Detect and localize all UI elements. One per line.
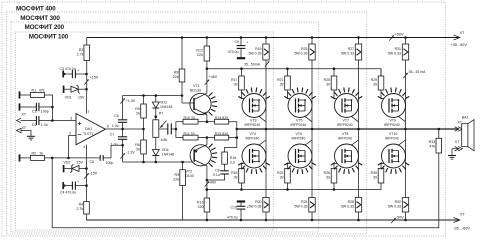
svg-text:5W 0.33: 5W 0.33: [294, 51, 307, 55]
svg-text:39: 39: [234, 176, 238, 180]
transistor VT10 IRFP240: [378, 132, 410, 174]
svg-text:VT2: VT2: [186, 170, 193, 174]
resistor R23 5W 0.33: [294, 36, 315, 130]
module boundary МОСФИТ 200: [11, 22, 319, 232]
svg-text:2: 2: [69, 132, 71, 136]
svg-text:R27: R27: [348, 47, 354, 51]
svg-text:VD2: VD2: [63, 161, 70, 165]
resistor R28 5W 0.33: [341, 129, 362, 221]
connector XT -35...-60V: [453, 213, 470, 231]
svg-text:МОСФИТ 200: МОСФИТ 200: [25, 24, 65, 31]
transistor VT6 IRFP240: [284, 132, 316, 174]
capacitor C4 470.0u: [60, 180, 88, 195]
transistor VT1 BD139: [182, 84, 217, 116]
svg-text:IRFP240: IRFP240: [338, 136, 352, 140]
wire lower gate bus: [206, 183, 381, 191]
svg-text:-15V: -15V: [90, 172, 98, 176]
svg-text:R18: R18: [231, 171, 237, 175]
wire op-amp pin 7: [87, 94, 90, 114]
svg-text:C10: C10: [231, 205, 237, 209]
svg-text:5W 0.33: 5W 0.33: [341, 51, 354, 55]
svg-text:R21: R21: [277, 78, 283, 82]
resistor R27 5W 0.33: [341, 36, 362, 130]
resistor R16 3.3: [222, 138, 237, 165]
svg-text:39: 39: [234, 83, 238, 87]
svg-text:R8: R8: [174, 70, 179, 74]
svg-text:5W 0.33: 5W 0.33: [294, 205, 307, 209]
svg-text:DA1: DA1: [85, 127, 92, 131]
svg-text:R26: R26: [324, 171, 330, 175]
svg-text:R10 33: R10 33: [184, 116, 195, 120]
resistor R14 820: [207, 116, 238, 139]
svg-text:22k: 22k: [173, 177, 179, 181]
capacitor C9 470.0u: [228, 36, 249, 58]
resistor R30 39: [371, 164, 389, 184]
node +1.3V: [120, 96, 135, 120]
wire VT10 drain join: [399, 140, 406, 145]
svg-text:R32: R32: [395, 200, 401, 204]
capacitor C2 1.0u: [26, 116, 54, 127]
wire op-amp pin 6 output: [105, 125, 143, 129]
svg-text:TL071: TL071: [83, 132, 93, 136]
svg-text:39: 39: [280, 176, 284, 180]
svg-text:+: +: [246, 40, 248, 44]
transistor VT8 IRFP240: [331, 132, 363, 174]
transistor VT4 IRFP240: [238, 132, 270, 174]
resistor R1 47k: [20, 88, 53, 120]
svg-text:39: 39: [373, 176, 377, 180]
svg-text:R13: R13: [197, 200, 204, 204]
svg-text:1.0u: 1.0u: [41, 123, 48, 127]
capacitor C8 0.1u: [207, 164, 229, 180]
wire ground return bus: [52, 153, 439, 228]
capacitor C1 100p: [20, 103, 54, 114]
resistor R21 39: [277, 69, 295, 99]
resistor R17 39: [231, 69, 249, 99]
svg-text:470.0u: 470.0u: [227, 215, 238, 219]
svg-text:C4 470.0u: C4 470.0u: [60, 191, 76, 195]
connector XT output hot: [455, 120, 463, 131]
svg-text:-50V: -50V: [396, 215, 404, 219]
wire VT7 drain join: [352, 116, 359, 121]
svg-text:+: +: [77, 68, 79, 72]
svg-text:R2: R2: [32, 151, 37, 155]
connector XT input return: [17, 118, 27, 130]
svg-text:C6: C6: [114, 114, 119, 118]
svg-text:2k: 2k: [136, 112, 140, 116]
svg-text:39: 39: [280, 83, 284, 87]
trimmer R7 6.8k: [153, 111, 168, 141]
resistor R24 5W 0.33: [294, 129, 315, 221]
resistor R19 5W 0.33: [244, 36, 269, 130]
resistor R32 5W 0.33: [388, 129, 409, 221]
svg-text:XT: XT: [22, 126, 27, 130]
svg-text:R24: R24: [301, 200, 307, 204]
svg-text:C1: C1: [32, 109, 37, 113]
svg-text:R15 820: R15 820: [215, 132, 228, 136]
wire op-amp pin 3: [52, 117, 76, 121]
svg-text:R29: R29: [371, 78, 377, 82]
transistor VT7 IRFP9240: [331, 88, 363, 127]
svg-text:470.0u: 470.0u: [228, 50, 239, 54]
svg-text:0.1u: 0.1u: [213, 173, 220, 177]
wire VT5 drain join: [305, 116, 312, 121]
zener VD1 15V: [64, 85, 88, 100]
connector XT output return: [448, 140, 463, 159]
svg-text:IRFP240: IRFP240: [385, 136, 399, 140]
svg-text:МОСФИТ 300: МОСФИТ 300: [20, 15, 60, 22]
svg-text:3: 3: [70, 117, 72, 121]
svg-text:VD3: VD3: [160, 100, 167, 104]
capacitor C6 1.0u: [112, 114, 127, 130]
resistor R5 2k: [135, 96, 146, 141]
wire VT6 drain join: [305, 140, 312, 145]
svg-text:5W 0.33: 5W 0.33: [388, 205, 401, 209]
resistor R29 39: [371, 69, 389, 99]
svg-text:220: 220: [198, 205, 204, 209]
wire output bus: [237, 128, 458, 130]
svg-text:R3: R3: [79, 48, 84, 52]
resistor R25 39: [324, 69, 342, 99]
svg-text:XT: XT: [22, 112, 27, 116]
svg-text:R4: R4: [79, 203, 84, 207]
svg-text:35...45 mA: 35...45 mA: [409, 70, 427, 74]
svg-text:IRFP9240: IRFP9240: [337, 123, 353, 127]
capacitor C10 470.0u: [227, 202, 248, 222]
svg-text:R12: R12: [196, 48, 203, 52]
module boundary МОСФИТ 300: [7, 12, 367, 234]
svg-text:+35...60V: +35...60V: [451, 43, 468, 47]
wire +1.3V node line: [123, 94, 184, 97]
wire VT8 drain join: [352, 140, 359, 145]
svg-text:BD139: BD139: [190, 88, 201, 92]
wire VT1 emitter: [206, 115, 209, 123]
svg-text:R20: R20: [255, 200, 261, 204]
svg-text:35...50mA: 35...50mA: [244, 62, 261, 66]
capacitor C7 1.0u: [110, 129, 127, 162]
svg-text:R6: R6: [135, 143, 140, 147]
resistor R10 33: [176, 116, 207, 124]
svg-text:МОСФИТ 100: МОСФИТ 100: [29, 33, 69, 40]
resistor R33 47k: [429, 128, 442, 153]
connector XT input pin: [20, 103, 27, 116]
svg-text:R33: R33: [429, 140, 435, 144]
svg-text:100p: 100p: [106, 161, 114, 165]
svg-text:+46V: +46V: [209, 75, 218, 79]
svg-text:R14 820: R14 820: [215, 116, 228, 120]
svg-text:5W 0.33: 5W 0.33: [341, 205, 354, 209]
transistor VT3 IRFP9240: [238, 88, 270, 127]
svg-text:R23: R23: [301, 47, 307, 51]
wire VT9 drain join: [399, 116, 406, 121]
-50V supply rail: [86, 218, 460, 223]
resistor R20 5W 0.33: [248, 129, 269, 221]
resistor R13 220: [197, 198, 210, 221]
transistor VT2 BD140: [183, 144, 217, 178]
wire op-amp pin 4: [83, 145, 86, 202]
svg-text:47k: 47k: [39, 88, 45, 92]
svg-text:IRFP9240: IRFP9240: [384, 123, 400, 127]
svg-text:BA1: BA1: [462, 116, 469, 120]
capacitor output coupling: [168, 123, 176, 134]
op-amp DA1 TL071: [76, 114, 105, 145]
svg-text:3.3: 3.3: [230, 160, 235, 164]
svg-text:39: 39: [326, 83, 330, 87]
svg-text:5W 0.33: 5W 0.33: [248, 205, 261, 209]
resistor R6 2k: [135, 140, 146, 162]
node -15V: [84, 172, 97, 179]
resistor R4 2.7k: [76, 202, 89, 221]
svg-text:C2: C2: [32, 123, 37, 127]
resistor R9 22k: [173, 161, 185, 220]
svg-text:R11 33: R11 33: [184, 132, 195, 136]
node +50V label: [389, 33, 404, 41]
svg-text:4: 4: [83, 145, 85, 149]
wire VT4 drain join: [259, 140, 266, 145]
svg-text:IRFP9240: IRFP9240: [245, 123, 261, 127]
resistor R18 39: [231, 164, 249, 190]
svg-text:+15V: +15V: [90, 76, 99, 80]
+50V supply rail: [87, 35, 460, 40]
svg-text:R1: R1: [32, 88, 37, 92]
resistor R3 2.7k: [77, 38, 90, 95]
svg-text:C3 470.0u: C3 470.0u: [60, 67, 76, 71]
resistor R8 22k: [173, 36, 185, 103]
wire upper gate bus: [206, 67, 381, 76]
svg-text:R17: R17: [231, 78, 237, 82]
svg-text:+1.3V: +1.3V: [126, 99, 136, 103]
wire driver output column: [175, 122, 178, 138]
svg-text:+: +: [77, 180, 79, 184]
svg-text:2k: 2k: [136, 148, 140, 152]
svg-text:5W 0.33: 5W 0.33: [248, 51, 261, 55]
capacitor C3 470.0u: [60, 67, 88, 78]
svg-text:IRFP9240: IRFP9240: [291, 123, 307, 127]
svg-text:R7: R7: [159, 111, 164, 115]
svg-text:R5: R5: [135, 107, 140, 111]
resistor R22 39: [277, 164, 295, 190]
capacitor C5 100p: [52, 144, 124, 165]
svg-text:R9: R9: [174, 173, 179, 177]
svg-text:R31: R31: [395, 47, 401, 51]
wire op-amp pin 2: [67, 132, 76, 160]
svg-text:XT: XT: [455, 140, 460, 144]
node +46V: [205, 75, 218, 85]
resistor R11 33: [176, 132, 207, 140]
svg-text:R19: R19: [255, 47, 261, 51]
wire VT2 base line: [123, 161, 195, 164]
svg-text:C9: C9: [235, 40, 240, 44]
resistor R26 39: [324, 164, 342, 190]
svg-text:R30: R30: [371, 171, 377, 175]
svg-text:100p: 100p: [41, 110, 49, 114]
node -1.3V: [120, 150, 135, 158]
wire VT3 drain join: [259, 116, 266, 121]
svg-text:6.8k: 6.8k: [161, 138, 168, 142]
svg-text:МОСФИТ 400: МОСФИТ 400: [16, 6, 56, 13]
diode VD4 1N4148: [152, 137, 174, 162]
ground input: [17, 128, 36, 140]
svg-text:-46V: -46V: [209, 181, 217, 185]
svg-text:22k: 22k: [173, 75, 179, 79]
speaker BA1: [462, 116, 474, 151]
svg-text:+50V: +50V: [395, 33, 404, 37]
resistor R31 5W 0.33: [388, 36, 426, 130]
svg-text:XT: XT: [460, 31, 466, 35]
connector XT +35...60V: [451, 31, 468, 47]
svg-text:C5: C5: [90, 160, 95, 164]
transistor VT5 IRFP9240: [284, 88, 316, 127]
svg-text:15V: 15V: [78, 96, 85, 100]
svg-text:2.7k: 2.7k: [77, 53, 84, 57]
svg-text:1N4148: 1N4148: [162, 152, 174, 156]
transistor VT9 IRFP9240: [378, 88, 410, 127]
node -50V label: [391, 215, 404, 223]
svg-text:1N4148: 1N4148: [160, 105, 172, 109]
svg-text:C7: C7: [110, 132, 115, 136]
svg-text:220: 220: [197, 53, 203, 57]
svg-text:1.0u: 1.0u: [112, 124, 119, 128]
zener VD2 15V: [63, 161, 87, 173]
svg-text:C8: C8: [215, 169, 220, 173]
resistor R15 820: [207, 132, 237, 140]
svg-text:1.0u: 1.0u: [111, 142, 118, 146]
resistor R2 1k: [20, 151, 54, 161]
svg-text:15V: 15V: [77, 161, 84, 165]
svg-text:39: 39: [326, 176, 330, 180]
svg-text:XT: XT: [460, 213, 466, 217]
wire VT2 collector -46V: [205, 166, 217, 198]
svg-text:6: 6: [107, 125, 109, 129]
svg-text:39: 39: [373, 83, 377, 87]
svg-text:IRFP240: IRFP240: [292, 136, 306, 140]
module boundary МОСФИТ 100: [16, 32, 274, 230]
svg-text:IRFP240: IRFP240: [246, 136, 260, 140]
svg-text:7: 7: [87, 110, 89, 114]
svg-text:R28: R28: [348, 200, 354, 204]
resistor R12 220: [196, 36, 209, 93]
wire VT2 emitter: [206, 136, 209, 144]
svg-text:R22: R22: [277, 171, 283, 175]
svg-text:R25: R25: [324, 78, 330, 82]
svg-text:VD1: VD1: [65, 96, 72, 100]
diode VD3 1N4148: [152, 96, 172, 120]
svg-text:5W 0.33: 5W 0.33: [388, 51, 401, 55]
svg-text:2.7k: 2.7k: [76, 207, 83, 211]
svg-text:47k: 47k: [430, 145, 436, 149]
svg-text:1k: 1k: [39, 151, 43, 155]
svg-text:-35...-60V: -35...-60V: [453, 226, 470, 230]
svg-text:VD4: VD4: [162, 148, 169, 152]
node +15V: [84, 76, 98, 85]
svg-text:-1.3V: -1.3V: [126, 150, 135, 154]
